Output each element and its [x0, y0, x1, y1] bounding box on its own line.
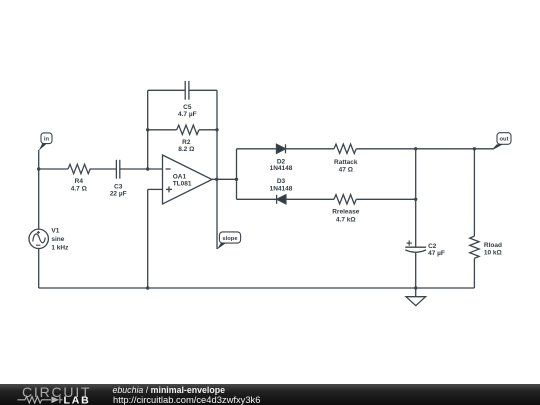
- svg-text:1N4148: 1N4148: [270, 165, 293, 172]
- wire C2 vertical: [415, 149, 417, 247]
- resistor Rrelease: [332, 195, 359, 224]
- svg-text:OA1: OA1: [173, 174, 187, 181]
- node R2 right: [215, 128, 218, 131]
- wire D3 to Rrelease: [286, 198, 334, 200]
- wire top rail to out flag: [474, 145, 497, 149]
- wire feedback top right: [189, 89, 217, 91]
- svg-text:R2: R2: [182, 139, 191, 146]
- diode D3: [270, 178, 293, 204]
- svg-text:4.7 Ω: 4.7 Ω: [71, 186, 87, 193]
- wire op-amp output: [212, 178, 237, 180]
- resistor R4: [68, 164, 90, 192]
- flag in: [39, 133, 52, 151]
- flag slope: [217, 232, 241, 250]
- svg-text:47 µF: 47 µF: [428, 250, 445, 257]
- node R2 left: [146, 128, 149, 131]
- wire branch vertical: [236, 149, 238, 200]
- svg-text:4.7 kΩ: 4.7 kΩ: [336, 217, 356, 224]
- diode D2: [270, 144, 293, 172]
- svg-text:Rrelease: Rrelease: [332, 209, 359, 216]
- resistor R2: [177, 125, 199, 153]
- node C2 top: [414, 147, 417, 150]
- wire feedback right vertical: [216, 90, 218, 179]
- footer bar: [0, 384, 540, 405]
- CircuitLab logo: [0, 384, 100, 405]
- svg-text:22 µF: 22 µF: [110, 191, 127, 198]
- wire non-inverting input: [148, 188, 163, 190]
- wire to D2: [237, 148, 277, 150]
- wire C2 bottom: [415, 252, 417, 288]
- svg-text:sine: sine: [51, 236, 64, 243]
- node ground junction: [414, 286, 417, 289]
- svg-text:47 Ω: 47 Ω: [339, 167, 353, 174]
- svg-text:1N4148: 1N4148: [270, 185, 293, 192]
- resistor Rattack: [334, 144, 358, 174]
- svg-text:in: in: [44, 137, 50, 143]
- capacitor C5: [178, 81, 197, 118]
- node output/feedback: [215, 178, 218, 181]
- wire Rrelease to right rail: [356, 198, 415, 200]
- svg-text:1 kHz: 1 kHz: [51, 244, 69, 251]
- svg-text:C5: C5: [183, 104, 192, 111]
- op-amp OA1: [163, 155, 213, 204]
- svg-text:10 kΩ: 10 kΩ: [484, 250, 502, 257]
- flag out: [494, 133, 511, 150]
- wire in-flag to main node: [38, 150, 40, 169]
- wire top rail to Rload: [416, 148, 475, 150]
- wire V1 to bottom rail: [38, 249, 40, 289]
- wire bottom rail: [39, 287, 475, 289]
- capacitor C3: [110, 160, 127, 198]
- node plus rail junction: [146, 286, 149, 289]
- node release join: [414, 198, 417, 201]
- svg-text:V1: V1: [51, 228, 59, 235]
- wire to D3: [237, 198, 277, 200]
- voltage source V1: [29, 169, 69, 251]
- svg-text:LAB: LAB: [64, 395, 91, 405]
- svg-text:Rattack: Rattack: [334, 159, 358, 166]
- wire D2 to Rattack: [286, 148, 335, 150]
- wire non-inverting to ground rail: [147, 189, 149, 288]
- capacitor C2: [405, 241, 445, 257]
- wire feedback left vertical: [147, 90, 149, 169]
- svg-text:Rload: Rload: [484, 242, 502, 249]
- svg-text:C3: C3: [114, 184, 123, 191]
- wire R2 right lead: [199, 129, 217, 131]
- wire R2 left lead: [148, 129, 177, 131]
- wire node to R4: [39, 168, 68, 170]
- resistor Rload: [470, 236, 502, 258]
- svg-text:slope: slope: [222, 236, 238, 242]
- node in junction: [37, 167, 40, 170]
- svg-text:D3: D3: [277, 178, 286, 185]
- svg-text:out: out: [499, 137, 508, 143]
- svg-text:TL081: TL081: [173, 181, 192, 188]
- wire Rload top lead: [473, 149, 475, 236]
- svg-text:R4: R4: [75, 178, 84, 185]
- wire feedback top left: [148, 89, 186, 91]
- ground: [406, 288, 426, 306]
- svg-text:8.2 Ω: 8.2 Ω: [178, 146, 194, 153]
- wire Rattack to right rail: [356, 148, 415, 150]
- wire R4 to C3: [90, 168, 117, 170]
- wire Rload bottom lead: [473, 259, 475, 289]
- svg-text:4.7 µF: 4.7 µF: [178, 111, 197, 118]
- wire slope vertical: [216, 179, 218, 249]
- node diode branch split: [235, 178, 238, 181]
- node Rload top: [473, 147, 476, 150]
- node feedback left: [146, 167, 149, 170]
- wire C3 to op-amp inverting input: [120, 168, 163, 170]
